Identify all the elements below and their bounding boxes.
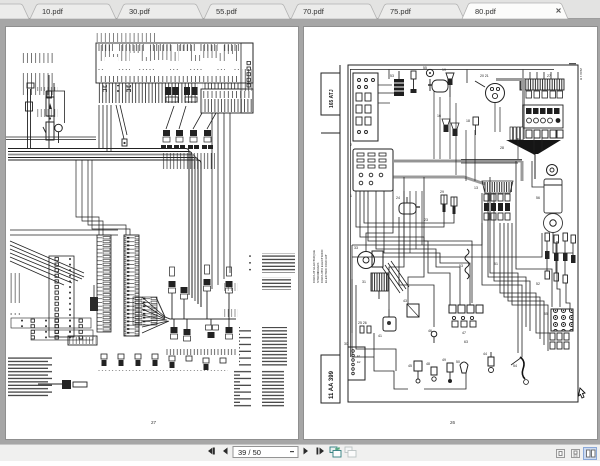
svg-text:165 ATJ: 165 ATJ <box>329 89 335 108</box>
fuse holder chain 2 <box>554 235 559 281</box>
bus risers to connector frame <box>99 105 127 151</box>
svg-text:30: 30 <box>344 342 348 346</box>
svg-text:11 AA 399: 11 AA 399 <box>329 370 335 399</box>
single page view button <box>557 450 565 458</box>
terminal strip B <box>124 235 139 336</box>
fan-out wires lower left <box>10 230 118 285</box>
tree feeder block <box>133 297 157 325</box>
battery terminals small <box>358 321 371 333</box>
branch labels 63 <box>424 218 540 344</box>
drawing code 2929 1 B <box>569 63 583 80</box>
tab 70.pdf <box>291 4 377 19</box>
branch plug up 2 <box>181 287 188 319</box>
upper mid wires <box>434 91 542 181</box>
sheet number 11 AA 399 <box>321 355 340 403</box>
branch plug down 1 <box>171 319 178 339</box>
terminal strip box <box>344 342 365 380</box>
connector row below relays <box>526 130 563 138</box>
svg-text:31: 31 <box>362 280 366 284</box>
harness bus thick <box>393 161 522 184</box>
wire label frame top <box>96 29 253 83</box>
funnel sensor pair 16 <box>437 114 459 136</box>
svg-text:18: 18 <box>466 119 470 123</box>
harness funnel black <box>500 140 561 179</box>
key switch <box>55 124 63 143</box>
wire run D <box>356 171 454 309</box>
tab 10.pdf <box>30 4 116 19</box>
svg-text:16: 16 <box>437 114 441 118</box>
lamp plug 4 <box>202 113 216 149</box>
last page button <box>317 448 319 455</box>
lamp plug 2 <box>174 106 186 149</box>
svg-text:2: 2 <box>350 143 352 147</box>
legend text middle <box>239 327 287 367</box>
fuse holder chain 1 <box>545 233 550 279</box>
branch labels <box>166 343 236 355</box>
relay module box <box>523 105 563 128</box>
svg-text:80.pdf: 80.pdf <box>475 7 497 16</box>
relay small block <box>90 285 98 311</box>
oil pressure switch <box>442 68 454 97</box>
wire run C3 <box>352 191 470 371</box>
ignition relay <box>46 91 65 123</box>
svg-text:63: 63 <box>464 340 468 344</box>
diode matrix rows <box>11 318 93 340</box>
solenoid valve bank left <box>474 181 513 220</box>
relay 43 <box>403 299 419 317</box>
title margin rule <box>321 65 340 402</box>
svg-text:28: 28 <box>500 146 504 150</box>
battery feed wires <box>26 75 55 149</box>
tree side labels <box>222 283 238 317</box>
svg-text:20 21: 20 21 <box>480 74 489 78</box>
svg-text:10.pdf: 10.pdf <box>42 7 64 16</box>
top wire run <box>350 69 554 83</box>
feeder line pair <box>6 137 96 140</box>
svg-text:70.pdf: 70.pdf <box>303 7 325 16</box>
sensor row bottom <box>98 354 228 381</box>
branch plug down 3 <box>206 319 219 338</box>
relay connector cluster <box>165 87 198 102</box>
tab bar background <box>0 0 600 19</box>
wire run C2 <box>482 161 570 365</box>
wiper motor <box>378 309 396 338</box>
svg-text:53: 53 <box>390 74 394 78</box>
glow plug solenoid <box>396 196 420 214</box>
two page view button (active) <box>584 448 597 460</box>
title CIRCUIT ELECTRIQUE <box>312 249 328 283</box>
svg-text:2929 1 B: 2929 1 B <box>579 68 583 80</box>
fuse holder chain 4 <box>571 235 576 263</box>
beacon 50 <box>456 360 468 373</box>
wire run C <box>500 223 550 351</box>
manifold block 55 <box>544 309 573 331</box>
battery label column <box>20 53 58 117</box>
svg-text:19: 19 <box>442 68 446 72</box>
svg-text:25 26: 25 26 <box>358 321 367 325</box>
branch plug up 4 <box>226 267 233 319</box>
svg-text:56: 56 <box>536 196 540 200</box>
main harness bus <box>8 149 198 161</box>
svg-text:29: 29 <box>440 190 444 194</box>
small valve 43b <box>408 361 422 383</box>
svg-text:55.pdf: 55.pdf <box>216 7 238 16</box>
connector pin rows below frame <box>98 83 240 103</box>
svg-text:24: 24 <box>396 196 400 200</box>
small sensor 18 <box>466 117 479 135</box>
svg-text:E2: E2 <box>357 360 361 364</box>
previous view button <box>330 447 337 453</box>
svg-text:1: 1 <box>350 194 352 198</box>
tilt lever 54 <box>513 357 528 384</box>
svg-text:39 / 50: 39 / 50 <box>238 448 261 457</box>
connector strip top right <box>520 72 564 98</box>
svg-text:55: 55 <box>544 312 548 316</box>
svg-text:75.pdf: 75.pdf <box>390 7 412 16</box>
heater element <box>68 336 97 345</box>
tab 80.pdf active <box>462 3 568 19</box>
svg-text:50: 50 <box>456 360 460 364</box>
bus thin extension <box>404 160 522 258</box>
svg-text:46: 46 <box>428 329 432 333</box>
previous page button <box>223 448 228 455</box>
svg-text:47: 47 <box>462 331 466 335</box>
valve bank center <box>449 305 483 335</box>
plug labels <box>161 153 215 169</box>
frame-left vertical run <box>351 69 397 357</box>
starter relay <box>43 117 54 140</box>
svg-text:ELECTRIC CIRCUIT: ELECTRIC CIRCUIT <box>324 254 328 283</box>
branch plug down 4 <box>226 319 233 339</box>
terminal strip A <box>49 256 74 337</box>
fuse box 1 <box>350 149 393 198</box>
tab 55.pdf <box>204 4 290 19</box>
wire run A <box>352 193 542 333</box>
wire run B <box>399 177 518 353</box>
float switch <box>483 352 494 373</box>
ground stud <box>38 380 87 389</box>
starter motor <box>354 246 383 269</box>
alternator fins <box>362 273 388 299</box>
coiled cable 53 <box>459 249 469 279</box>
cable entry columns <box>510 127 523 140</box>
svg-text:23: 23 <box>424 218 428 222</box>
svg-text:26: 26 <box>450 420 456 425</box>
tab 30.pdf <box>117 4 203 19</box>
svg-text:33: 33 <box>354 246 358 250</box>
svg-text:13: 13 <box>474 186 478 190</box>
fuel valve 48 <box>426 362 437 381</box>
svg-text:27: 27 <box>151 420 157 425</box>
svg-text:45: 45 <box>408 364 412 368</box>
wire run E <box>374 161 573 389</box>
continuous view button <box>572 450 580 458</box>
solenoid capsule <box>428 80 448 92</box>
harness elbow gray <box>496 80 524 140</box>
drawing frame <box>348 65 578 402</box>
ignition coil <box>390 71 404 96</box>
fan labels column <box>9 271 22 315</box>
long riser wires right <box>212 113 230 289</box>
svg-text:54: 54 <box>513 364 517 368</box>
first page button <box>208 448 213 455</box>
pressure switch 46 <box>428 329 437 343</box>
hydraulic cylinder <box>536 165 563 233</box>
model label 165 ATJ <box>321 73 340 115</box>
drain valve 49 <box>442 358 453 383</box>
frame right section checker <box>241 43 253 113</box>
svg-text:48: 48 <box>426 362 430 366</box>
svg-text:41: 41 <box>378 334 382 338</box>
bus corner drop <box>186 149 201 308</box>
svg-text:30.pdf: 30.pdf <box>129 7 151 16</box>
svg-text:51: 51 <box>494 262 498 266</box>
fuel sender pair <box>440 190 457 214</box>
branch plug up 1 <box>169 267 176 319</box>
relay box 2 <box>350 73 378 147</box>
tab close button <box>557 9 561 13</box>
legend text lower <box>234 369 284 407</box>
svg-text:52: 52 <box>536 282 540 286</box>
partial tab left <box>0 4 29 19</box>
connector strip frame right <box>201 89 253 113</box>
fuse holder chain 3 <box>563 233 568 283</box>
terminal strip B1 <box>97 235 111 332</box>
next page button <box>304 448 309 455</box>
junction connector small <box>122 139 127 146</box>
manifold bolts lower <box>550 333 569 349</box>
mouse cursor <box>579 388 586 398</box>
fuse link <box>27 83 52 98</box>
svg-text:49: 49 <box>442 358 446 362</box>
harness fan lines <box>382 261 409 293</box>
svg-text:43: 43 <box>403 299 407 303</box>
svg-text:44: 44 <box>483 352 487 356</box>
lamp plug 3 <box>188 113 202 149</box>
spark plug connector <box>411 71 417 93</box>
tab 75.pdf <box>378 4 464 19</box>
branch plug up 3 <box>204 265 211 319</box>
fuse list text <box>8 356 52 398</box>
lamp plug 1 <box>161 106 174 149</box>
horn <box>475 74 505 103</box>
branch plug down 2 <box>184 319 191 341</box>
legend text upper <box>249 253 295 290</box>
harness trunk <box>142 297 236 333</box>
page number combo box <box>233 447 298 458</box>
svg-text:27: 27 <box>547 74 551 78</box>
bus to strip drop wires <box>76 160 130 235</box>
next view button (disabled) <box>345 447 352 453</box>
gauge sender <box>423 66 434 91</box>
